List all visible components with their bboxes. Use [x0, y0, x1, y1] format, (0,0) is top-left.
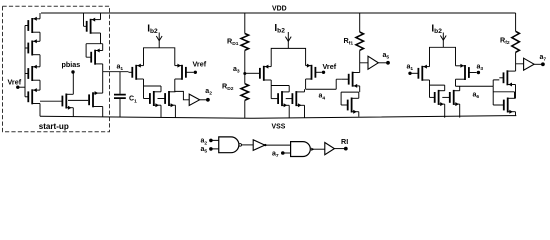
- wire T5 drain to VDD rail: [100, 13, 102, 20]
- wire a2 tap: [175, 91, 189, 99]
- wire TB1 source to VSS rail: [72, 108, 74, 117]
- NAND gate G1 body: [219, 137, 239, 153]
- node pbias dot: [71, 70, 74, 73]
- wire VDD to RD1: [244, 13, 246, 34]
- buffer U4: [253, 140, 265, 151]
- wire T5 gate to VDD rail: [84, 13, 87, 26]
- wire T6 source down to a1 net: [102, 64, 104, 72]
- buffer U5: [325, 143, 335, 155]
- wire Rf2 to node: [516, 52, 524, 71]
- svg-text:start-up: start-up: [39, 122, 69, 131]
- wire M9 drain / M11 gate loop: [430, 80, 445, 97]
- resistor RD1: [241, 34, 249, 51]
- wire Td diode loop: [493, 92, 514, 99]
- buffer U1 (a2): [189, 94, 199, 105]
- transistor Tc (follower 2): [499, 77, 503, 79]
- capacitor C1 top lead: [119, 72, 121, 94]
- AND gate G2 body: [291, 142, 311, 157]
- wire M11 source VSS: [444, 104, 446, 118]
- wire T4 source to VSS rail: [39, 104, 41, 117]
- svg-text:Vref: Vref: [8, 77, 22, 86]
- node a1 terminal dot block5: [408, 72, 411, 75]
- wire buffer U3 out: [534, 63, 541, 65]
- transistor T3 (startup left chain): [25, 73, 28, 75]
- wire Tb source VSS: [358, 112, 360, 117]
- svg-text:VDD: VDD: [272, 5, 287, 12]
- wire a1 net horizontal: [103, 71, 129, 73]
- wire M2 drain to M4 drain: [174, 79, 177, 92]
- wire T5 source down: [100, 33, 102, 44]
- wire RD1 to a3 node: [244, 50, 246, 83]
- transistor M2 (diff pair right, Vref gate): [186, 71, 194, 73]
- start-up block dashed boundary box: [3, 6, 110, 132]
- node a7 dot: [541, 62, 545, 66]
- resistor RD2: [241, 84, 249, 101]
- svg-text:Vref: Vref: [323, 62, 337, 71]
- AND gate G2 output arrow: [311, 148, 314, 151]
- node a7 input dot: [281, 151, 285, 155]
- wire pbias vertical: [72, 72, 74, 94]
- wire U4 out to gate G2: [265, 144, 291, 146]
- transistor M1 (diff pair left): [129, 71, 133, 73]
- wire a7 stub: [283, 152, 291, 154]
- wire M12 source VSS: [459, 104, 461, 118]
- svg-text:pbias: pbias: [62, 60, 81, 69]
- current source Ib2 block3: [287, 32, 289, 48]
- capacitor C1 bottom lead: [119, 99, 121, 117]
- wire a6 net: [456, 79, 500, 91]
- transistor M5 (stage2 diff left, a3 gate): [245, 72, 260, 74]
- node Vref terminal dot block3: [322, 71, 325, 74]
- node a2 dot: [206, 98, 210, 102]
- wire U5 out to RI: [334, 148, 344, 150]
- wire a6 to Td gate bus: [493, 86, 500, 105]
- wire NAND G1 input stubs: [211, 140, 219, 149]
- node Vref terminal dot: [16, 86, 19, 89]
- wire Ta source to Tb drain: [359, 86, 361, 92]
- transistor M7 (stage2 mirror diode): [271, 98, 278, 100]
- transistor T6 (startup right, diode): [90, 52, 92, 63]
- VDD rail wire: [41, 12, 516, 14]
- wire Tb diode loop: [341, 92, 359, 105]
- transistor Td (diode load 2): [500, 104, 504, 106]
- transistor Tb (diode load): [341, 104, 348, 106]
- wire G2 out to buffer U5: [314, 148, 325, 150]
- svg-text:VSS: VSS: [272, 124, 286, 131]
- buffer U3 (a7): [524, 58, 535, 70]
- wire M7 source VSS: [288, 105, 290, 118]
- wire VDD to Rf1: [359, 13, 361, 32]
- transistor TB1 (startup bottom left): [61, 96, 63, 107]
- resistor Rf1: [356, 32, 364, 50]
- wire Rf1 to node/T_a: [360, 50, 368, 72]
- svg-text:Vref: Vref: [193, 60, 207, 69]
- transistor M4 (mirror): [158, 98, 166, 100]
- wire T2-T3 chain: [39, 55, 41, 67]
- transistor T1 (startup left chain top): [25, 25, 28, 27]
- wire buffer U1 out: [200, 99, 207, 101]
- current source Ib2 block2: [158, 33, 160, 48]
- node Vref terminal dot block2: [194, 71, 197, 74]
- transistor T5 (startup right, gate to VDD): [86, 21, 88, 32]
- node a5 dot: [386, 61, 390, 65]
- wire T1-T2 chain: [39, 32, 41, 41]
- svg-text:RI: RI: [341, 137, 348, 146]
- wire T1 drain to VDD rail: [38, 13, 41, 19]
- wire a4 net: [305, 79, 342, 92]
- transistor M6 (stage2 diff right, Vref gate): [315, 71, 321, 73]
- resistor Rf2: [512, 31, 520, 52]
- current source Ib2 block5: [442, 33, 444, 48]
- wire Td source VSS: [515, 112, 517, 116]
- transistor M10 (stage3 diff right, a3 gate): [469, 72, 477, 74]
- wire M3 source to VSS: [160, 105, 162, 117]
- node a5 input dot: [209, 147, 213, 151]
- wire RD2 to VSS: [244, 100, 246, 118]
- VSS rail wire: [40, 116, 516, 119]
- node a3 junction dot: [243, 72, 246, 75]
- transistor M8 (stage2 mirror): [286, 98, 293, 100]
- transistor M11 (stage3 mirror diode): [429, 96, 434, 98]
- node a2 input dot: [209, 139, 213, 143]
- capacitor C1 plates: [114, 95, 126, 99]
- wire buffer U2 out: [378, 62, 386, 64]
- transistor M9 (stage3 diff left, a1 gate): [412, 72, 419, 74]
- wire TB1/TB2 gate line: [40, 99, 88, 102]
- wire G1 out to buffer U4: [242, 144, 254, 146]
- transistor M12 (stage3 mirror): [442, 96, 450, 98]
- wire Tc source to Td drain: [515, 85, 517, 99]
- wire TB2 source to VSS rail: [102, 107, 104, 117]
- buffer U2 (a5): [368, 56, 378, 69]
- wire VDD corner to Rf2: [515, 13, 517, 31]
- NAND gate G1 bubble: [239, 144, 242, 147]
- wire T6 diode loop: [86, 44, 103, 58]
- wire M8 source VSS: [304, 105, 306, 118]
- transistor T4 (startup, Vref gate): [25, 96, 28, 98]
- wire T3-T4 chain: [39, 80, 41, 90]
- transistor Ta (follower, a4 gate): [341, 78, 349, 80]
- node a3 terminal dot block5: [477, 71, 480, 74]
- transistor M3 (mirror, diode): [144, 98, 150, 100]
- node RI dot: [344, 147, 348, 151]
- transistor TB2 (startup bottom right): [88, 94, 90, 105]
- transistor T2 (startup left chain): [25, 47, 28, 49]
- wire TB2 drain to a1 net: [102, 72, 104, 93]
- node buffer U4 out junction: [264, 144, 266, 146]
- wire Vref to gate bus: [18, 86, 25, 88]
- wire M4 source to VSS: [174, 105, 176, 117]
- wire M1 drain / M3 gate: [144, 79, 162, 99]
- wire startup gate bus: [24, 26, 26, 97]
- wire M5 drain / M7 gate loop: [271, 80, 289, 99]
